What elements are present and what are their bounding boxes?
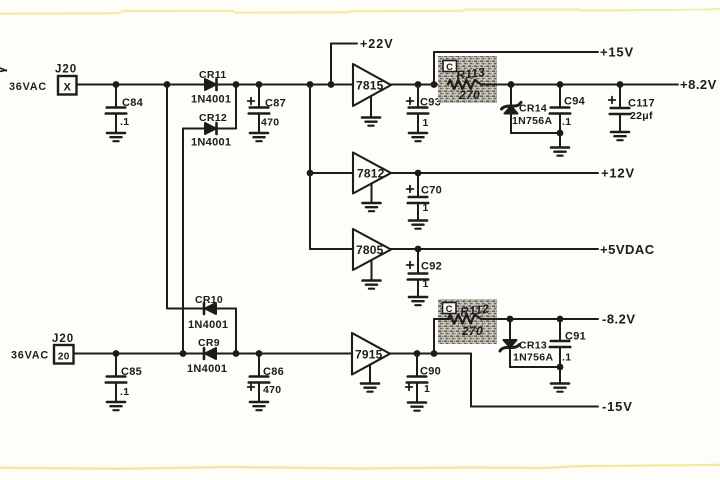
- svg-text:C: C: [446, 62, 453, 73]
- wire: J20-20 to 7915 input (bottom rail): [74, 353, 352, 355]
- svg-text:C117: C117: [628, 98, 655, 110]
- junction: +22V tap: [328, 81, 335, 88]
- svg-text:1: 1: [423, 117, 429, 129]
- wire: 7805 output to +5VDAC: [390, 248, 598, 250]
- ground (C70): [409, 221, 427, 229]
- svg-text:22μf: 22μf: [630, 110, 653, 122]
- junction: C84 tap: [113, 81, 120, 88]
- junction: rectifier node A (CR11 anode / CR10 feed): [164, 81, 171, 88]
- wire: CR14 anode to C94 foot: [511, 113, 560, 133]
- svg-text:C85: C85: [121, 366, 142, 378]
- svg-text:1N4001: 1N4001: [191, 137, 231, 149]
- svg-text:7812: 7812: [357, 167, 385, 181]
- wire: 7915 ground stem: [369, 365, 371, 384]
- capacitor C70 1: [407, 173, 442, 220]
- ground (7815): [362, 118, 380, 126]
- diode CR11 1N4001: [191, 69, 231, 106]
- svg-text:.1: .1: [120, 116, 129, 128]
- junction: R112 tap: [431, 350, 438, 357]
- wire: CR13 cathode to C91 foot: [510, 348, 560, 367]
- svg-text:270: 270: [461, 324, 483, 338]
- svg-text:+15V: +15V: [600, 45, 634, 60]
- label 36VAC (top): [9, 81, 47, 93]
- regulator U-7815: [353, 64, 391, 106]
- capacitor C85 .1: [106, 354, 142, 402]
- svg-text:C92: C92: [421, 261, 442, 273]
- highlight box (R113 change): [438, 56, 497, 103]
- wire: +15V branch: [434, 52, 598, 85]
- svg-text:7815: 7815: [356, 79, 384, 93]
- wire: R113 to +8.2V rail: [481, 84, 678, 86]
- junction: 7812 input: [307, 170, 314, 177]
- wire: CR14 stem (top): [510, 85, 512, 106]
- ground (C85): [107, 402, 125, 410]
- diode CR9 1N4001: [187, 337, 227, 375]
- svg-text:7915: 7915: [355, 348, 383, 362]
- zener CR14 1N756A: [502, 102, 553, 127]
- svg-text:CR12: CR12: [199, 112, 227, 124]
- resistor R113 270: [448, 65, 486, 102]
- capacitor C87 470: [248, 85, 286, 133]
- svg-text:1N4001: 1N4001: [187, 363, 227, 375]
- capacitor C84: [106, 85, 144, 133]
- diode CR10 1N4001: [188, 294, 228, 331]
- ground (CR14/C94): [551, 148, 569, 156]
- svg-text:1N4001: 1N4001: [191, 94, 231, 106]
- svg-text:36VAC: 36VAC: [9, 81, 47, 93]
- svg-text:1N4001: 1N4001: [188, 319, 228, 331]
- junction: C91 tap: [557, 316, 564, 323]
- revision tag C (top): [443, 61, 457, 73]
- ground (C86): [250, 402, 268, 410]
- svg-text:1: 1: [424, 383, 430, 395]
- svg-text:C91: C91: [565, 331, 586, 343]
- svg-text:+12V: +12V: [601, 166, 635, 181]
- svg-text:36VAC: 36VAC: [11, 350, 49, 362]
- junction: CR11/CR12 cathode node: [233, 81, 240, 88]
- svg-text:+22V: +22V: [360, 37, 394, 51]
- highlight box (R112 change): [438, 299, 497, 344]
- wire: CR12 anode down to bottom rail: [182, 129, 184, 354]
- svg-text:.1: .1: [562, 116, 571, 128]
- label -15V: [602, 399, 633, 414]
- junction: C92 tap: [415, 246, 422, 253]
- svg-text:470: 470: [261, 117, 279, 129]
- junction: C90 tap: [414, 350, 421, 357]
- svg-text:C: C: [446, 304, 453, 315]
- junction: C85 tap: [113, 350, 120, 357]
- junction: C94/CR14 ground node: [557, 130, 564, 137]
- junction: C117 tap: [617, 81, 624, 88]
- wire: 7815 ground stem: [370, 97, 372, 118]
- svg-text:C94: C94: [564, 96, 586, 108]
- svg-text:+5VDAC: +5VDAC: [600, 242, 655, 257]
- svg-text:1: 1: [423, 278, 429, 290]
- label -8.2V: [602, 312, 636, 327]
- svg-text:C90: C90: [420, 366, 441, 378]
- zener CR13 1N756A: [500, 340, 553, 364]
- wire: CR10 row: [167, 308, 236, 310]
- svg-text:C86: C86: [263, 366, 284, 378]
- junction: C86 tap: [256, 350, 263, 357]
- svg-text:J20: J20: [55, 64, 77, 76]
- ground (7915): [361, 384, 379, 392]
- diode CR12 1N4001: [191, 112, 231, 149]
- junction: C93 tap: [415, 81, 422, 88]
- wire: 7815 output to R113: [391, 84, 450, 86]
- resistor R112 270: [434, 301, 490, 338]
- wire: +22V branch: [331, 44, 357, 85]
- wire: 7915 output rail: [390, 353, 471, 355]
- ground (7812): [363, 203, 381, 211]
- wire: CR10 cathode down to bottom rail: [235, 309, 237, 354]
- capacitor C86 470: [248, 354, 284, 402]
- junction: C87 tap: [256, 81, 263, 88]
- label +5VDAC: [600, 242, 655, 257]
- ground (C90): [408, 403, 426, 411]
- svg-text:X: X: [63, 81, 71, 93]
- wire: 36VAC feed stub at left edge (top): [0, 68, 7, 72]
- svg-text:.1: .1: [120, 386, 129, 398]
- wire: node A down to CR10 row: [166, 85, 168, 309]
- ground (CR13/C91): [551, 384, 569, 392]
- svg-text:C84: C84: [122, 97, 144, 109]
- ground (C84): [107, 133, 125, 141]
- junction: C70 tap: [415, 170, 422, 177]
- svg-text:C70: C70: [421, 185, 442, 197]
- label 36VAC (bottom): [11, 350, 49, 362]
- label +15V: [600, 45, 634, 60]
- capacitor C94 .1: [550, 85, 586, 134]
- wire: 7805 ground stem: [371, 260, 373, 280]
- revision tag C (bottom): [443, 303, 457, 315]
- svg-text:+8.2V: +8.2V: [680, 77, 717, 92]
- junction: CR14 tap: [508, 81, 515, 88]
- connector J20 pin X: [55, 64, 77, 95]
- svg-text:CR10: CR10: [195, 294, 223, 306]
- svg-text:1N756A: 1N756A: [513, 352, 553, 364]
- svg-text:J20: J20: [52, 333, 74, 345]
- regulator U-7805: [353, 229, 391, 270]
- wire: cathode node down to CR12: [235, 85, 237, 129]
- wire: ground stem (C91): [559, 367, 561, 383]
- ground (C117): [611, 132, 629, 140]
- wire: R112 to -8.2V rail: [481, 318, 598, 320]
- ground (C93): [409, 133, 427, 141]
- svg-text:20: 20: [58, 351, 70, 362]
- connector J20 pin 20: [52, 333, 74, 364]
- svg-text:.1: .1: [562, 352, 571, 364]
- svg-text:7805: 7805: [356, 243, 384, 257]
- wire: CR13 stem (top): [509, 319, 511, 340]
- svg-text:470: 470: [263, 384, 281, 396]
- junction: CR10/CR9 cathode node: [233, 350, 240, 357]
- wire: ground stem: [559, 133, 561, 147]
- svg-text:CR14: CR14: [519, 103, 547, 115]
- wire: 7812 output to +12V: [390, 172, 598, 174]
- junction: regulator input split (to 7812/7805): [307, 81, 314, 88]
- capacitor C92 1: [407, 249, 442, 297]
- ground (C87): [250, 133, 268, 141]
- svg-text:-8.2V: -8.2V: [602, 312, 636, 327]
- wire: CR12 row: [183, 128, 236, 130]
- junction: CR9/CR12 node: [180, 350, 187, 357]
- svg-text:C93: C93: [420, 97, 441, 109]
- capacitor C90 1: [406, 354, 441, 403]
- svg-text:C87: C87: [265, 98, 286, 110]
- label +22V: [360, 37, 394, 51]
- capacitor C91 .1: [550, 319, 586, 367]
- label +12V: [601, 166, 635, 181]
- svg-text:1: 1: [423, 202, 429, 214]
- svg-text:1N756A: 1N756A: [512, 115, 552, 127]
- wire: J20-X to 7815 input (top rail): [77, 84, 353, 86]
- wire: -15V branch: [471, 354, 598, 407]
- wire: up to R112 rail: [433, 319, 435, 354]
- capacitor C93 1: [407, 85, 441, 133]
- regulator U-7812: [353, 153, 391, 194]
- svg-text:-15V: -15V: [602, 399, 633, 414]
- wire: input rail down to 7812 and 7805: [310, 85, 353, 250]
- junction: C91/CR13 ground node: [557, 364, 564, 371]
- regulator U-7915: [352, 333, 390, 375]
- capacitor C117 22uf: [609, 85, 655, 132]
- svg-text:270: 270: [458, 88, 480, 102]
- junction: C94 tap: [557, 81, 564, 88]
- svg-text:CR11: CR11: [199, 69, 226, 81]
- ground (C92): [409, 297, 427, 305]
- junction: +15V tap: [431, 81, 438, 88]
- svg-text:CR9: CR9: [198, 337, 220, 349]
- label +8.2V: [680, 77, 717, 92]
- svg-text:CR13: CR13: [519, 340, 547, 352]
- wire: 7812 ground stem: [371, 184, 373, 203]
- junction: CR13 tap: [507, 316, 514, 323]
- ground (7805): [363, 281, 381, 289]
